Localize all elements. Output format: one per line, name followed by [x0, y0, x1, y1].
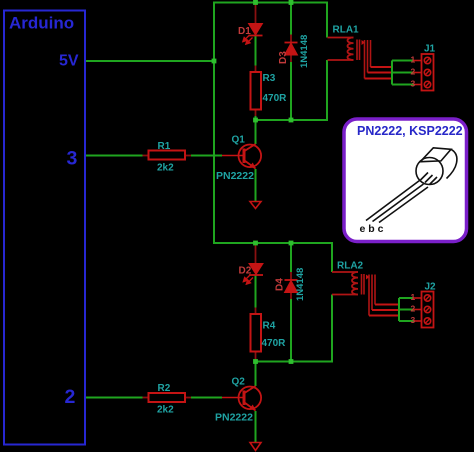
wire D2 cathode to R4: [255, 276, 257, 308]
resistor R1: [143, 151, 192, 160]
wire D3 anode to rail: [290, 62, 292, 120]
svg-text:2: 2: [65, 386, 76, 408]
wire J1 pin2 stub: [392, 72, 414, 74]
svg-text:R4: R4: [263, 321, 276, 332]
svg-text:Q1: Q1: [232, 135, 246, 146]
wire R1 to Q1 base: [191, 155, 222, 157]
svg-text:470R: 470R: [262, 338, 287, 349]
wire 5V rail from Arduino to bus: [86, 60, 214, 62]
junction 5V bus: [212, 59, 217, 64]
connector J1: [414, 54, 434, 91]
svg-text:2k2: 2k2: [157, 405, 174, 416]
svg-text:RLA2: RLA2: [337, 261, 364, 272]
wire relay2 contact bottom to J2 bus: [369, 315, 399, 317]
wire mid rail to relay2: [213, 243, 332, 272]
relay RLA2: [332, 272, 375, 316]
TO-92 package drawing: [416, 148, 457, 185]
wire vertical bus x=214: [213, 3, 215, 244]
junction mid rail D4: [289, 241, 294, 246]
svg-text:5V: 5V: [59, 53, 79, 70]
svg-text:3: 3: [67, 148, 78, 170]
svg-text:R2: R2: [158, 383, 171, 394]
diode D3: [285, 43, 298, 56]
wire relay2 coil return to bottom rail: [256, 295, 333, 362]
wire top rail to relay1: [213, 3, 327, 38]
transistor Q1: [222, 144, 261, 169]
svg-text:2k2: 2k2: [157, 163, 174, 174]
svg-text:3: 3: [411, 79, 416, 89]
wire D4 branch upper: [290, 244, 292, 273]
pin D4 cathode: [290, 272, 292, 280]
transistor Q2: [222, 386, 261, 411]
wire D1 cathode to R3: [255, 36, 257, 66]
wire R2 to Q2 base: [191, 397, 222, 399]
svg-text:D2: D2: [239, 266, 252, 277]
info box PN2222/KSP2222: [344, 119, 467, 242]
svg-text:PN2222: PN2222: [215, 412, 253, 424]
pin D4 anode: [290, 292, 292, 299]
svg-text:1N4148: 1N4148: [295, 268, 306, 301]
connector J2: [414, 292, 434, 328]
svg-text:R1: R1: [158, 141, 171, 152]
wire Q1 emitter to ground: [255, 169, 257, 202]
wire relay1 coil return to collector rail: [256, 60, 328, 120]
wire relay2 contact top to J2 bus: [375, 304, 399, 306]
wire D4 anode to bottom rail: [290, 299, 292, 362]
svg-text:Arduino: Arduino: [9, 14, 74, 33]
junction bottom rail R4: [253, 359, 258, 364]
TO-92 leads: [366, 181, 428, 223]
svg-text:2: 2: [411, 304, 416, 314]
wire pin2 to R2: [86, 397, 143, 399]
pin D3 cathode: [290, 35, 292, 43]
svg-text:D4: D4: [275, 278, 286, 291]
resistor R4: [251, 314, 262, 352]
svg-text:R3: R3: [263, 73, 276, 84]
junction top rail D3: [289, 0, 294, 5]
svg-text:1: 1: [411, 55, 416, 65]
wire D3 branch upper: [290, 3, 292, 35]
resistor R3: [251, 72, 262, 110]
diode D4: [285, 280, 298, 293]
Arduino board outline: [4, 11, 85, 445]
wire Q2 emitter to ground: [255, 411, 257, 443]
junction collector rail R3: [253, 118, 258, 123]
ground symbol GND1: [250, 202, 261, 209]
wire J2 pin2 stub: [399, 309, 414, 311]
wire pin3 to R1: [86, 155, 143, 157]
junction mid rail D2: [253, 241, 258, 246]
pin D3 anode: [290, 55, 292, 62]
wire relay1 contact mid to J1 bus: [368, 72, 393, 74]
wire J1 pin1 stub: [392, 60, 414, 62]
svg-text:1N4148: 1N4148: [299, 35, 310, 68]
svg-text:2: 2: [411, 67, 416, 77]
svg-text:e b c: e b c: [360, 223, 384, 235]
svg-text:D1: D1: [238, 26, 251, 37]
svg-text:RLA1: RLA1: [333, 25, 360, 36]
wire relay1 contact bottom to J1 bus: [365, 78, 393, 80]
resistor R2: [143, 393, 192, 402]
LED D1: [243, 24, 263, 45]
svg-text:470R: 470R: [263, 93, 288, 104]
wire J2 pin1 stub: [399, 297, 414, 299]
pin R4 bottom: [255, 352, 257, 362]
wire Q1 collector: [255, 120, 257, 144]
ground symbol GND2: [250, 443, 261, 451]
junction top rail D1: [253, 0, 258, 5]
wire J2 pin3 stub: [399, 320, 414, 322]
junction collector rail D3: [289, 118, 294, 123]
svg-text:PN2222: PN2222: [216, 170, 254, 182]
LED D2: [243, 264, 263, 285]
svg-text:J1: J1: [424, 44, 436, 55]
svg-text:1: 1: [411, 292, 416, 302]
wire J2 bus vertical: [398, 298, 400, 321]
wire Q2 collector: [255, 362, 257, 387]
wire D2 anode drop: [255, 244, 257, 265]
svg-text:Q2: Q2: [232, 377, 246, 388]
wire J1 bus vertical: [391, 61, 393, 85]
junction bottom rail D4: [289, 359, 294, 364]
wire J1 pin3 stub: [392, 84, 414, 86]
wire relay2 contact mid to J2 bus: [372, 309, 399, 311]
wire relay1 contact top to J1 bus: [371, 66, 393, 68]
wire R3 to collector rail: [255, 110, 257, 118]
relay RLA1: [328, 38, 371, 79]
svg-text:3: 3: [411, 315, 416, 325]
svg-text:D3: D3: [278, 51, 289, 64]
svg-text:PN2222, KSP2222: PN2222, KSP2222: [357, 124, 463, 138]
wire D1 anode drop: [255, 3, 257, 25]
svg-text:J2: J2: [425, 282, 437, 293]
